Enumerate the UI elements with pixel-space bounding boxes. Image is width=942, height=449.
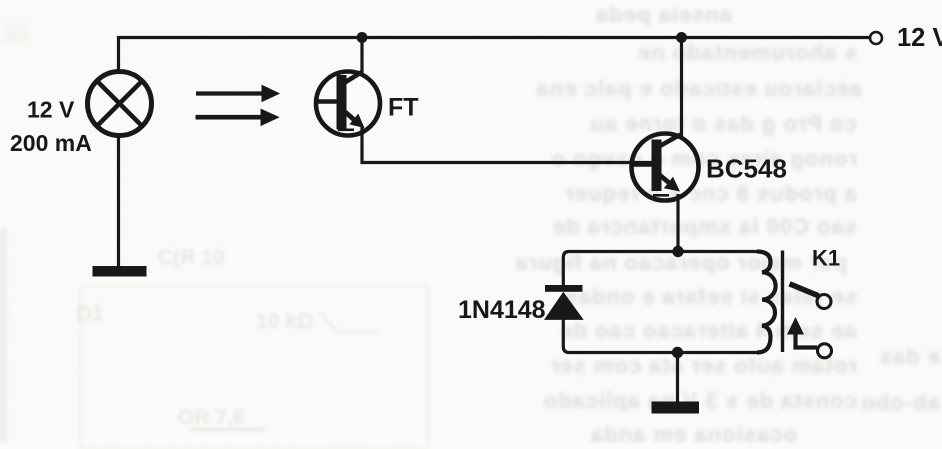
base bar [337, 75, 347, 130]
svg-text:200 mA: 200 mA [10, 130, 92, 156]
junction node: emitter to diode/relay top [672, 246, 683, 257]
wire: FT emitter down and to BC548 base [362, 126, 652, 163]
base lead inside circle [317, 99, 338, 104]
faint page bleed-through text column (right side) [0, 0, 942, 1]
wire: relay bottom node to ground [676, 353, 679, 403]
arrow (light ray 1) [197, 92, 265, 95]
svg-text:K1: K1 [812, 246, 840, 271]
junction node: BC548 collector on rail [676, 32, 687, 43]
junction node: FT collector on rail [357, 32, 368, 43]
relay actuation arrow [787, 317, 804, 335]
diode D1 1N4148 [544, 285, 584, 320]
relay contact terminal (bottom) [818, 344, 832, 358]
very faint bleed on left half [158, 246, 225, 270]
wire: lamp bottom lead [117, 136, 120, 267]
wire: top supply rail [119, 38, 870, 72]
base bar [652, 140, 662, 192]
arrow (light ray 2) [196, 115, 263, 119]
+12V terminal [870, 32, 882, 44]
relay switch arm [790, 284, 819, 296]
emitter diagonal with arrow [344, 111, 355, 121]
relay contact terminal (top) [817, 295, 831, 309]
collector diagonal [659, 135, 681, 147]
wire: bottom node wire between diode and relay coil [563, 318, 757, 353]
junction node: diode/relay bottom to ground [672, 347, 683, 358]
phototransistor FT [316, 72, 380, 136]
light arrows [196, 86, 279, 126]
base lead inside circle [631, 162, 652, 167]
wire: BC548 collector to rail [680, 38, 683, 138]
ground (lamp) [93, 266, 147, 277]
svg-text:1N4148: 1N4148 [458, 296, 546, 324]
emitter diagonal with arrow [659, 175, 671, 185]
svg-text:BC548: BC548 [706, 154, 787, 184]
wire: BC548 emitter down to relay/diode node [676, 194, 679, 252]
transistor BC548 [631, 134, 699, 201]
collector diagonal [344, 72, 363, 84]
svg-text:12 V: 12 V [897, 24, 942, 52]
relay core bar [781, 251, 784, 353]
lamp 12 V 200 mA [88, 72, 152, 136]
svg-text:12 V: 12 V [27, 97, 75, 123]
relay coil K1 [757, 252, 776, 353]
ground (relay) [652, 402, 700, 414]
svg-text:FT: FT [388, 94, 419, 122]
wire: FT collector to rail [360, 38, 363, 73]
wire: top node wire between diode and relay coil [563, 252, 757, 287]
